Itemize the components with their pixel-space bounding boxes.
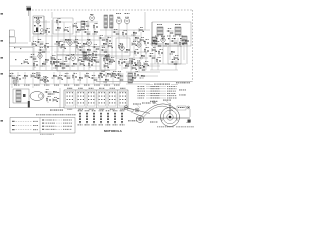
- svg-text:MOTOROLA: MOTOROLA: [104, 129, 123, 133]
